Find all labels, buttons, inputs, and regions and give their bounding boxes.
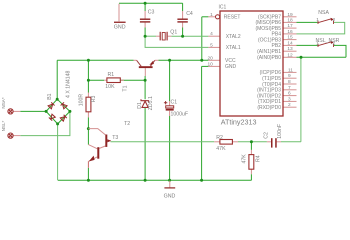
svg-text:10K: 10K xyxy=(105,84,115,90)
svg-text:R4: R4 xyxy=(256,155,262,162)
svg-text:C1: C1 xyxy=(171,100,178,106)
svg-text:D1: D1 xyxy=(137,102,143,109)
svg-text:NSL*: NSL* xyxy=(1,120,6,131)
svg-text:NSA*: NSA* xyxy=(1,97,6,108)
svg-text:B1: B1 xyxy=(47,93,53,99)
svg-text:T2: T2 xyxy=(124,121,130,127)
svg-text:100nF: 100nF xyxy=(277,124,283,139)
svg-text:1000uF: 1000uF xyxy=(171,112,189,118)
svg-text:1: 1 xyxy=(316,40,319,46)
svg-text:T1: T1 xyxy=(123,85,129,91)
svg-text:7: 7 xyxy=(288,85,291,91)
svg-text:C4: C4 xyxy=(186,11,193,17)
svg-text:Q1: Q1 xyxy=(170,29,177,35)
svg-text:1: 1 xyxy=(316,17,319,23)
svg-text:ZD5.1: ZD5.1 xyxy=(148,96,154,110)
svg-text:R2: R2 xyxy=(216,135,223,141)
svg-text:GND: GND xyxy=(225,64,237,70)
svg-text:3: 3 xyxy=(288,96,291,102)
svg-text:16: 16 xyxy=(287,29,293,35)
svg-text:T3: T3 xyxy=(112,135,118,141)
svg-text:47K: 47K xyxy=(216,146,226,152)
svg-text:R1: R1 xyxy=(108,72,115,78)
svg-text:2: 2 xyxy=(333,40,336,46)
svg-text:15: 15 xyxy=(287,35,293,41)
svg-text:NSA: NSA xyxy=(318,10,329,16)
svg-text:RESET: RESET xyxy=(224,15,241,21)
svg-text:6: 6 xyxy=(288,91,291,97)
svg-text:GND: GND xyxy=(114,24,126,30)
svg-text:C3: C3 xyxy=(148,9,155,15)
svg-text:18: 18 xyxy=(287,17,293,23)
svg-text:C2: C2 xyxy=(263,132,269,139)
svg-text:4: 4 xyxy=(210,31,213,37)
svg-text:17: 17 xyxy=(287,23,293,29)
svg-text:R3: R3 xyxy=(91,96,97,103)
svg-text:2: 2 xyxy=(333,17,336,23)
svg-text:5: 5 xyxy=(210,42,213,48)
svg-text:4 X 1N4148: 4 X 1N4148 xyxy=(65,70,71,98)
svg-text:20: 20 xyxy=(207,55,213,61)
svg-text:ATtiny2313: ATtiny2313 xyxy=(221,118,257,127)
svg-text:(AIN1)PB1: (AIN1)PB1 xyxy=(257,49,281,55)
svg-text:IC1: IC1 xyxy=(219,4,227,10)
svg-text:8: 8 xyxy=(288,79,291,85)
svg-text:47K: 47K xyxy=(241,154,247,164)
svg-text:14: 14 xyxy=(287,40,293,46)
svg-text:XTAL2: XTAL2 xyxy=(226,34,241,40)
svg-text:9: 9 xyxy=(288,73,291,79)
svg-text:12: 12 xyxy=(287,52,293,58)
svg-text:19: 19 xyxy=(287,12,293,18)
svg-text:10: 10 xyxy=(207,61,213,67)
svg-text:(AIN0)PB0: (AIN0)PB0 xyxy=(257,55,281,61)
svg-text:GND: GND xyxy=(164,194,176,200)
svg-text:13: 13 xyxy=(287,46,293,52)
svg-text:XTAL1: XTAL1 xyxy=(226,45,241,51)
svg-text:(RXD)PD0: (RXD)PD0 xyxy=(257,105,281,111)
svg-text:NSL_NSR: NSL_NSR xyxy=(316,38,340,44)
svg-text:11: 11 xyxy=(288,67,293,73)
svg-text:1: 1 xyxy=(210,12,213,18)
svg-text:2: 2 xyxy=(288,102,291,108)
svg-text:100R: 100R xyxy=(78,94,84,107)
